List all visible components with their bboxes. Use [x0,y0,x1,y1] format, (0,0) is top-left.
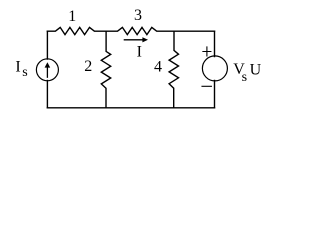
svg-text:U: U [250,61,262,78]
svg-text:s: s [242,70,247,85]
svg-text:s: s [22,65,27,80]
svg-text:3: 3 [134,7,142,24]
svg-text:I: I [15,59,20,76]
svg-text:I: I [137,43,142,60]
svg-text:4: 4 [154,58,162,75]
svg-text:2: 2 [84,58,92,75]
svg-text:1: 1 [68,8,76,25]
